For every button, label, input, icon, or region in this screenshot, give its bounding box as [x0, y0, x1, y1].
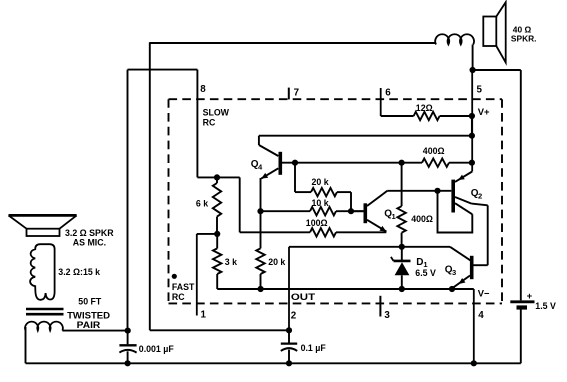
svg-text:V−: V− [478, 288, 490, 299]
svg-text:SLOW: SLOW [203, 108, 230, 118]
svg-text:0.001 µF: 0.001 µF [139, 344, 175, 354]
svg-text:4: 4 [478, 310, 484, 321]
svg-text:SPKR.: SPKR. [511, 33, 537, 43]
svg-text:3 k: 3 k [225, 257, 237, 267]
svg-text:3: 3 [384, 310, 390, 321]
svg-text:400Ω: 400Ω [423, 146, 445, 156]
svg-text:FAST: FAST [172, 282, 195, 292]
svg-text:6.5 V: 6.5 V [415, 268, 436, 278]
svg-text:OUT: OUT [291, 292, 316, 302]
svg-text:8: 8 [200, 84, 206, 95]
svg-text:1: 1 [201, 310, 207, 321]
svg-text:12Ω: 12Ω [416, 103, 433, 113]
svg-text:RC: RC [203, 118, 216, 128]
svg-text:7: 7 [294, 88, 300, 99]
svg-text:400Ω: 400Ω [411, 214, 433, 224]
svg-text:20 k: 20 k [268, 257, 285, 267]
svg-text:3: 3 [452, 268, 456, 277]
svg-text:PAIR: PAIR [77, 320, 101, 330]
svg-text:TWISTED: TWISTED [67, 310, 110, 320]
svg-text:5: 5 [477, 85, 483, 96]
svg-text:2: 2 [291, 311, 297, 322]
svg-text:RC: RC [172, 292, 185, 302]
svg-text:20 k: 20 k [312, 177, 329, 187]
svg-text:6 k: 6 k [196, 198, 208, 208]
svg-text:6: 6 [385, 88, 391, 99]
svg-text:1.5 V: 1.5 V [535, 301, 556, 311]
svg-text:100Ω: 100Ω [306, 218, 328, 228]
svg-text:3.2 Ω:15 k: 3.2 Ω:15 k [58, 267, 100, 277]
svg-text:0.1 µF: 0.1 µF [301, 343, 327, 353]
svg-text:V+: V+ [478, 106, 490, 117]
svg-text:2: 2 [478, 192, 482, 201]
svg-text:D: D [416, 257, 423, 268]
svg-text:10 k: 10 k [312, 198, 329, 208]
svg-text:+: + [527, 291, 533, 302]
svg-text:50 FT: 50 FT [78, 297, 102, 307]
svg-text:AS MIC.: AS MIC. [73, 238, 106, 248]
